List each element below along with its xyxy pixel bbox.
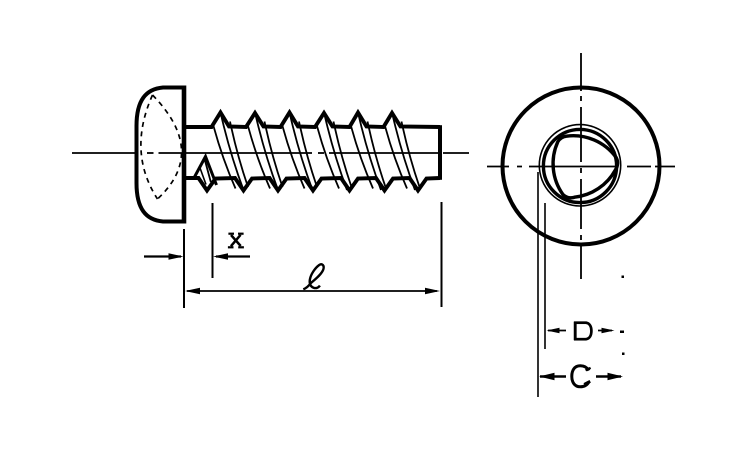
vertical centerline of end view (dash-dot) bbox=[580, 53, 582, 279]
label script ell bbox=[303, 264, 323, 289]
thread crest profile, top of shank bbox=[185, 113, 440, 128]
faint right extension line remnant dots bbox=[620, 276, 625, 356]
hidden recess arcs (dashed lens inside head) bbox=[141, 95, 182, 199]
dimension C right leader line bbox=[596, 375, 621, 378]
thread helix flank lines, wrap 4 bbox=[317, 115, 352, 191]
thread helix flank lines, wrap 5 bbox=[351, 115, 386, 191]
label X bbox=[228, 234, 244, 248]
thread helix flank lines, wrap 1 bbox=[214, 115, 249, 191]
dimension D left arrowhead bbox=[547, 328, 560, 334]
dimension C right arrowhead bbox=[608, 373, 624, 381]
extension line at screw point bbox=[441, 202, 443, 307]
dimension X right arrowhead bbox=[213, 253, 228, 259]
dimension D left leader line bbox=[548, 330, 566, 332]
label C bbox=[572, 366, 591, 387]
thread helix flank lines, wrap 2 bbox=[248, 115, 283, 191]
dimension l right arrowhead bbox=[425, 288, 440, 294]
dimension C left arrowhead bbox=[539, 373, 555, 381]
extension line at head bearing face bbox=[183, 229, 185, 308]
thread root circle (thick) bbox=[543, 129, 616, 202]
dimension C left leader line bbox=[540, 375, 566, 378]
dimension X right leader line bbox=[216, 255, 250, 257]
extension line at end of lead-in (X boundary) bbox=[212, 203, 214, 278]
dimension l (screw length) line bbox=[187, 290, 437, 292]
label D bbox=[574, 322, 591, 341]
blunt point end face of screw bbox=[438, 125, 442, 180]
thread start / lead-in cone bbox=[195, 157, 217, 186]
dimension l left arrowhead bbox=[185, 288, 200, 294]
thread helix flank lines, wrap 6 bbox=[385, 115, 420, 191]
extension line for dimension D (lobe diameter, left) bbox=[544, 203, 546, 349]
thread crest profile, bottom of shank bbox=[185, 178, 440, 191]
extension line for dimension C (major diameter, left) bbox=[537, 172, 539, 397]
dimension X left arrowhead bbox=[169, 253, 184, 259]
thread major diameter circle (thin) bbox=[539, 125, 620, 206]
dimension D right arrowhead bbox=[602, 328, 615, 334]
centerline of screw axis (side view, dash-dot) bbox=[72, 152, 469, 154]
pan head dome outline (side view) bbox=[137, 88, 185, 222]
head outline circle (end view) bbox=[503, 88, 660, 245]
dimension X left leader line bbox=[144, 255, 181, 257]
head bearing face line bbox=[182, 86, 187, 224]
trilobular body cross-section bbox=[553, 136, 618, 198]
thread helix flank lines, wrap 3 bbox=[283, 115, 318, 191]
dimension D right leader line bbox=[598, 330, 612, 332]
horizontal centerline of end view (dash-dot) bbox=[487, 166, 675, 168]
